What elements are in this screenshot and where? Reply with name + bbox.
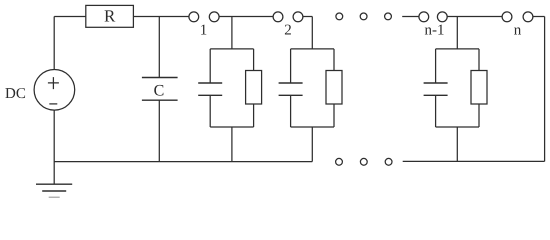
section 1: box bottom wire bbox=[210, 126, 253, 128]
wire bbox=[54, 16, 86, 18]
section 2: resistor R2 bbox=[326, 49, 342, 127]
node 2 terminal a bbox=[273, 12, 283, 22]
wire bbox=[402, 16, 419, 18]
wire bbox=[53, 110, 55, 184]
svg-text:C: C bbox=[154, 83, 165, 100]
section 1: box top wire bbox=[210, 48, 253, 50]
wire bbox=[53, 17, 55, 70]
wire bbox=[544, 17, 546, 162]
node 1 terminal b bbox=[209, 12, 219, 22]
section 2: capacitor C2 bbox=[279, 49, 303, 127]
node n-1 terminal b bbox=[437, 12, 447, 22]
wire bbox=[219, 16, 273, 18]
capacitor C bbox=[142, 17, 178, 162]
wire bbox=[133, 16, 189, 18]
section 1: wire output bbox=[231, 127, 233, 162]
wire bbox=[447, 16, 502, 18]
resistor R bbox=[86, 5, 134, 27]
node 2 terminal b bbox=[293, 12, 303, 22]
svg-text:1: 1 bbox=[200, 23, 208, 39]
svg-text:2: 2 bbox=[284, 23, 292, 39]
section 2: box bottom wire bbox=[291, 126, 334, 128]
svg-text:DC: DC bbox=[5, 86, 26, 102]
section n-1: box bottom wire bbox=[436, 126, 479, 128]
section 2: wire input bbox=[311, 17, 313, 49]
section n-1: box top wire bbox=[436, 48, 479, 50]
ellipsis dots top bbox=[336, 13, 392, 20]
section n-1: resistor Rn-1 bbox=[471, 49, 487, 127]
node n-1 terminal a bbox=[419, 12, 429, 22]
section 1: capacitor C1 bbox=[198, 49, 222, 127]
wire bottom rail left bbox=[54, 161, 312, 163]
section 1: resistor R1 bbox=[246, 49, 262, 127]
section 1: wire input bbox=[231, 17, 233, 49]
node n terminal b bbox=[523, 12, 533, 22]
section n-1: wire output bbox=[456, 127, 458, 161]
wire bbox=[303, 16, 312, 18]
node 1 terminal a bbox=[189, 12, 199, 22]
section 2: box top wire bbox=[291, 48, 334, 50]
svg-text:R: R bbox=[104, 6, 116, 25]
ellipsis dots bottom bbox=[336, 158, 392, 165]
section n-1: capacitor Cn-1 bbox=[424, 49, 448, 127]
section n-1: wire input bbox=[456, 17, 458, 49]
ground bbox=[36, 184, 72, 197]
wire bbox=[533, 16, 545, 18]
svg-text:n-1: n-1 bbox=[425, 23, 445, 39]
node n terminal a bbox=[502, 12, 512, 22]
svg-text:n: n bbox=[514, 23, 522, 39]
section 2: wire output bbox=[311, 127, 313, 162]
wire bottom rail right bbox=[403, 160, 545, 162]
dc source V1 bbox=[34, 70, 75, 111]
